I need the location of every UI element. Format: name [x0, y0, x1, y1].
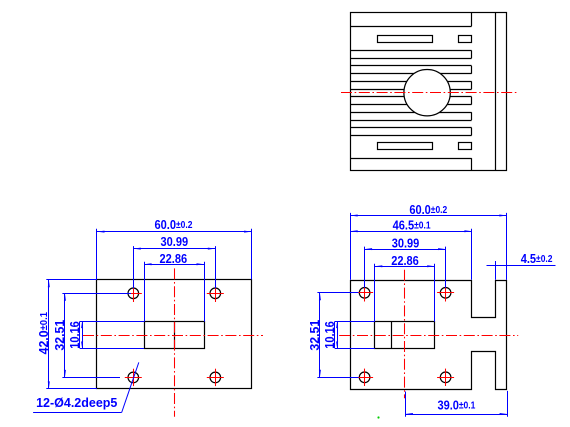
dim 22.86 (left view) dimension line — [144, 264, 204, 266]
svg-text:60.0±0.2: 60.0±0.2 — [155, 217, 193, 232]
bottom-left view: plate outline — [97, 280, 252, 389]
bottom-right view: hole bottom-left — [359, 372, 370, 383]
bottom-left view: red horizontal centerline — [83, 335, 263, 337]
dim 10.16 (right view) extension lines — [335, 321, 375, 323]
heatsink section: fin-tip vertical, top segment — [471, 13, 473, 26]
dim 60.0±0.2 (left view) extension lines — [96, 229, 98, 280]
svg-text:12-Ø4.2deep5: 12-Ø4.2deep5 — [36, 396, 117, 410]
dim 32.51 (left view) dimension line — [64, 293, 66, 377]
heatsink section: bottom small slot — [459, 143, 472, 150]
bottom-right view: red vertical centerline — [404, 270, 406, 399]
dim 10.16 (right view) underline — [334, 322, 336, 348]
dim 22.86 (right view) dimension line — [375, 266, 435, 268]
heatsink section: center bore circle — [404, 70, 450, 116]
bottom-right view: hole top-right — [440, 288, 451, 299]
dim 4.5±0.2 (right view) dimension+leader line — [487, 265, 556, 267]
svg-text:10.16: 10.16 — [322, 321, 337, 349]
dim 30.99 (right view) dimension line — [365, 249, 446, 251]
svg-text:22.86: 22.86 — [391, 253, 419, 268]
heatsink section: top small slot — [459, 36, 472, 43]
dim 32.51 (right view) extension lines — [317, 292, 358, 294]
svg-text:30.99: 30.99 — [392, 236, 420, 251]
heatsink section: inner wall line of right bar — [495, 13, 497, 171]
bottom-right view: center slot divider — [391, 322, 393, 349]
bottom-left view: red vertical centerline — [174, 268, 176, 416]
dim 42.0±0.1 (left view) dimension line — [48, 280, 50, 389]
dim 32.51 (left view) extension lines — [62, 293, 131, 295]
dim 32.51 (right view) dimension line — [319, 293, 321, 378]
bottom-right view: hole top-left — [359, 288, 370, 299]
heatsink section: red horizontal centerline — [341, 92, 517, 94]
green stray dot — [377, 416, 379, 418]
dim 46.5±0.1 (right view) dimension line — [350, 231, 472, 233]
dim 10.16 (right view) dimension line — [337, 322, 339, 348]
bottom-left view: center slot divider — [174, 322, 176, 349]
bottom-left view: hole top-right — [210, 288, 221, 299]
dim 10.16 (left view) underline — [79, 322, 81, 348]
heatsink section view: outer body outline — [351, 13, 507, 171]
dim 42.0±0.1 (left view) extension lines — [46, 279, 97, 281]
label 12-Ø4.2deep5 underline — [33, 412, 122, 414]
svg-text:42.0±0.1: 42.0±0.1 — [37, 311, 51, 354]
bottom-right view: red horizontal centerline — [339, 335, 518, 337]
dim 22.86 (right view) extension lines — [374, 264, 376, 322]
svg-text:46.5±0.1: 46.5±0.1 — [393, 218, 431, 233]
dim 4.5±0.2 (right view) extension lines — [495, 261, 497, 280]
dim 39.0±0.1 (right view) dimension line — [405, 414, 507, 416]
dim 39.0±0.1 (right view) extension lines — [405, 392, 407, 417]
bottom-left view: hole top-left — [128, 288, 139, 299]
dim 10.16 (left view) extension lines — [80, 321, 145, 323]
dim 46.5±0.1 (right view) extension line — [471, 229, 473, 280]
bottom-left view: hole bottom-left — [128, 372, 139, 383]
heatsink section: top band line — [350, 26, 471, 28]
svg-text:60.0±0.2: 60.0±0.2 — [409, 202, 447, 217]
svg-text:22.86: 22.86 — [159, 251, 187, 266]
svg-text:39.0±0.1: 39.0±0.1 — [437, 398, 475, 413]
svg-text:4.5±0.2: 4.5±0.2 — [521, 251, 553, 266]
svg-text:32.51: 32.51 — [53, 320, 67, 351]
svg-text:10.16: 10.16 — [67, 321, 82, 349]
label 12-Ø4.2deep5 leader line — [122, 362, 139, 412]
heatsink section: fin right-end closures — [471, 51, 473, 59]
bottom-right view: center slot rectangle — [375, 322, 435, 349]
heatsink section: bottom long slot — [378, 143, 433, 150]
dim 30.99 (left view) dimension line — [133, 248, 215, 250]
svg-text:30.99: 30.99 — [160, 234, 188, 249]
dim 60.0±0.2 (left view) dimension line — [97, 231, 252, 233]
heatsink section: fin-tip vertical, bottom segment — [471, 158, 473, 171]
heatsink section: bottom band line — [350, 158, 471, 160]
dim 10.16 (left view) dimension line — [82, 322, 84, 348]
bottom-left view: hole bottom-right — [210, 372, 221, 383]
bottom-left view: center slot rectangle — [145, 322, 205, 349]
dim 30.99 (right view) extension lines — [364, 247, 366, 288]
bottom-right view: plate outline with right notches — [351, 281, 507, 390]
dim 60.0±0.2 (right view) extension lines — [350, 213, 352, 280]
heatsink section: 12 fin lines — [350, 50, 471, 52]
dim 30.99 (left view) extension lines — [133, 246, 135, 288]
svg-text:32.51: 32.51 — [308, 320, 322, 351]
heatsink section: top long slot — [378, 36, 433, 43]
dim 60.0±0.2 (right view) dimension line — [350, 215, 507, 217]
dim 22.86 (left view) extension lines — [144, 262, 146, 322]
bottom-right view: hole bottom-right — [440, 372, 451, 383]
